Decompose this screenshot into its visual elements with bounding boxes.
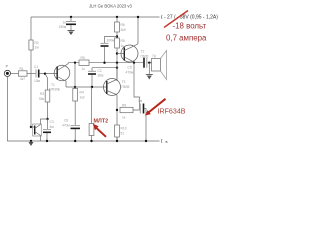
ground speaker [146,74,153,76]
capacitor C6 [71,125,81,127]
svg-text:51: 51 [121,131,125,135]
transistor T2 [121,45,138,62]
wire R3 down [47,102,49,119]
node R4 top [74,86,76,88]
capacitor C5 [143,58,145,68]
svg-text:R5: R5 [81,56,85,60]
svg-text:30м: 30м [98,74,105,78]
wire R7 column [91,87,93,124]
svg-text:R9: R9 [122,104,126,108]
capacitor C4 bootstrap [101,42,109,44]
wire jack to R1 [11,73,19,75]
wire bootstrap jog [105,37,118,44]
transistor T1 [54,65,70,81]
output column down [134,63,140,104]
node T2 collector output [133,62,135,64]
node bootstrap [116,35,118,37]
annotation strikethrough red line [164,11,188,28]
wire left column from rail [30,17,32,40]
svg-text:JLH Ge BOKA 2023 v3: JLH Ge BOKA 2023 v3 [89,4,133,9]
svg-text:470м: 470м [126,70,135,74]
svg-text:100м: 100м [107,39,116,43]
negative supply rail top [31,16,160,18]
node input base [44,73,46,75]
svg-text:R1: R1 [20,67,24,71]
resistor R2 [29,40,33,50]
svg-text:0,7 ампера: 0,7 ампера [166,34,207,43]
node column output crossing [116,62,118,64]
resistor R3 [45,90,50,102]
capacitor C9 [139,104,141,114]
capacitor C2 [88,70,96,72]
svg-text:R3: R3 [40,92,44,96]
resistor R8 [115,38,120,48]
svg-text:R6: R6 [121,23,125,27]
annotation arrow to R7 [96,127,106,136]
svg-text:R4: R4 [80,91,84,95]
svg-text:1м: 1м [35,46,40,50]
resistor R6 [115,22,120,32]
node wireB end [116,67,118,69]
resistor R1 [19,71,28,76]
svg-text:-18 вольт: -18 вольт [173,22,207,31]
svg-text:1м: 1м [138,99,143,103]
wire R4 column [74,63,76,89]
svg-text:С5: С5 [128,66,132,70]
svg-text:1к: 1к [122,116,126,120]
node R9 tap [116,109,118,111]
wire C7 column [47,119,49,129]
ground symbol main [30,140,32,142]
wire T2 base [117,53,124,55]
resistor R5 [79,60,89,65]
wire R4 to C6 [74,101,76,125]
svg-text:Гр: Гр [153,54,157,58]
bootstrap column from rail [116,16,118,18]
node rail-C8 [70,16,72,18]
node rail junctions [46,140,48,142]
resistor R9 [120,107,133,112]
svg-text:1к2: 1к2 [80,95,85,99]
transistor T3 [104,79,121,96]
capacitor C1 [35,70,37,78]
svg-text:1н: 1н [63,20,67,24]
output wire A [68,62,143,64]
svg-text:в: в [166,140,168,144]
svg-text:470м: 470м [62,123,71,127]
ground below C8 [68,30,75,32]
svg-text:R2: R2 [35,41,39,45]
wire C9 to rail [144,109,146,142]
resistor R10 [115,125,120,137]
svg-text:1к: 1к [82,67,86,71]
annotation arrow IRF [148,99,165,113]
node T2 base [116,52,118,54]
svg-text:Т2: Т2 [141,50,145,54]
capacitor C8 [66,21,76,23]
wire R2 to input node [30,50,32,127]
node bootstrap-output [103,62,105,64]
ground rail bottom [7,77,159,142]
svg-text:4к7: 4к7 [20,77,25,81]
node speaker ground [148,62,150,64]
ground terminal [160,139,163,143]
resistor R4 [73,89,78,102]
svg-text:4м: 4м [50,125,55,129]
svg-text:Т3: Т3 [122,80,126,84]
capacitor C7 [43,129,51,131]
wire B [92,67,117,69]
svg-text:П605: П605 [122,85,130,89]
svg-text:56к: 56к [39,97,45,101]
svg-text:С2: С2 [98,69,102,73]
svg-text:МП39Б: МП39Б [49,87,60,91]
svg-text:150м: 150м [59,25,68,29]
svg-text:10м: 10м [34,79,41,83]
svg-text:- 27 / - 38V (0,95 - 1,2A): - 27 / - 38V (0,95 - 1,2A) [164,14,218,20]
svg-text:R10: R10 [121,127,127,131]
transistor T5 bias [30,126,32,128]
T3 base wire [66,86,106,88]
node bias tap [46,118,48,120]
wire R1 to C1 [27,73,36,75]
wire to T5 collector [41,119,48,125]
svg-text:С1: С1 [34,65,38,69]
resistor R7 [89,124,94,136]
wire C8 up [70,17,72,22]
svg-text:R8: R8 [121,39,125,43]
supply terminal [160,15,163,19]
svg-text:МЛТ2: МЛТ2 [94,118,109,124]
svg-text:3к9: 3к9 [121,28,126,32]
wire ground stub [148,63,150,75]
svg-text:С3: С3 [50,120,54,124]
wire C1 to T1 base [40,73,57,75]
wire C5 to speaker [148,62,152,64]
node C2 bottom [91,86,93,88]
svg-text:С6: С6 [64,119,68,123]
wire R9 right [133,104,140,111]
svg-text:Т1: Т1 [51,83,55,87]
wire column mid [116,48,118,81]
node emitter R5 [74,62,76,64]
wire down to R3 [45,74,48,90]
svg-text:IRF634B: IRF634B [158,108,186,116]
